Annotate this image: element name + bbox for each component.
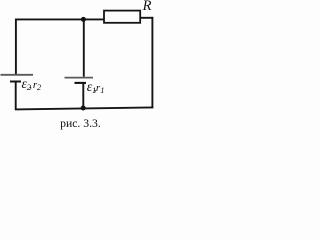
svg-text:ε2,r2: ε2,r2 [22,77,42,92]
battery cell E2 short plate [10,81,21,83]
node junction top dot [81,17,86,22]
svg-text:R: R [142,0,152,14]
battery cell E2 long plate [1,74,34,76]
wire middle lower [82,83,84,108]
wire top horizontal [15,18,104,20]
svg-text:рис. 3.3.: рис. 3.3. [60,117,101,130]
wire right edge vertical [151,17,153,108]
wire bottom horizontal [15,107,153,109]
wire resistor right to top-right corner [140,17,153,19]
wire left edge lower [15,82,17,110]
node junction bottom dot [81,106,86,111]
wire middle upper [83,19,85,76]
resistor R box [104,11,140,23]
wire left edge upper [15,19,17,75]
battery cell E1 long plate [65,77,94,79]
svg-text:ε1,r1: ε1,r1 [87,80,105,95]
battery cell E1 short plate [75,82,87,84]
